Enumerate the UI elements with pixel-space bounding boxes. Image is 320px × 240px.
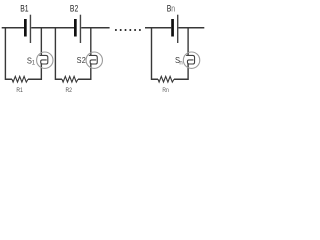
- resistor R1: [12, 76, 28, 82]
- wire bottom right cell 2: [78, 64, 92, 80]
- resistor Rn: [158, 76, 174, 82]
- svg-text:n: n: [179, 60, 182, 66]
- wire drain lead cell n: [187, 27, 189, 55]
- battery Bn: [171, 15, 178, 43]
- wire drain lead cell 1: [40, 27, 42, 55]
- svg-text:Bn: Bn: [167, 4, 175, 14]
- switch S1 circle: [37, 52, 53, 68]
- wire top bus segment 4: [145, 27, 171, 29]
- switch Sn circle: [183, 52, 199, 68]
- switch S2 mosfet glyph: [89, 55, 97, 64]
- continuation dots: [115, 29, 141, 31]
- switch S2 circle: [86, 52, 102, 68]
- wire drain lead cell 2: [90, 27, 92, 55]
- switch S1 mosfet glyph: [39, 55, 47, 64]
- wire top bus segment 2: [31, 27, 74, 29]
- wire top bus segment 5: [178, 27, 204, 29]
- svg-text:R2: R2: [65, 88, 71, 95]
- wire top bus segment 3: [81, 27, 109, 29]
- wire left branch cell n: [152, 27, 159, 79]
- svg-text:S2: S2: [77, 56, 87, 66]
- svg-text:1: 1: [32, 61, 36, 67]
- wire left branch cell 2: [55, 27, 62, 79]
- svg-text:R1: R1: [16, 88, 22, 95]
- battery B1: [24, 15, 31, 43]
- svg-text:B1: B1: [20, 4, 29, 14]
- resistor R2: [62, 76, 78, 82]
- svg-text:Rn: Rn: [162, 88, 168, 95]
- wire bottom right cell 1: [28, 64, 42, 80]
- wire bottom right cell n: [174, 64, 189, 80]
- wire top bus segment 1: [2, 27, 24, 29]
- svg-text:B2: B2: [70, 4, 79, 14]
- switch Sn mosfet glyph: [186, 55, 194, 64]
- battery B2: [74, 15, 81, 43]
- wire left branch cell 1: [5, 27, 12, 79]
